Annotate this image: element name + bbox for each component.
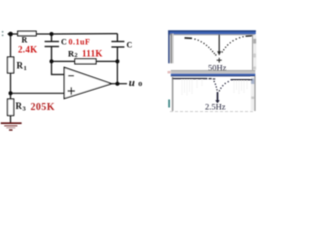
wire R2 row right	[96, 60, 117, 62]
svg-text:R: R	[22, 36, 28, 45]
panel 2 striations left	[182, 80, 202, 96]
capacitor C2	[111, 34, 124, 62]
resistor R2	[75, 59, 96, 64]
op-amp minus sign	[68, 75, 74, 77]
svg-text:u: u	[129, 77, 135, 89]
node C1 top	[50, 32, 54, 36]
wire R3 to ground	[10, 116, 12, 124]
panel 1 waveform right slope (dotted)	[222, 36, 244, 53]
input terminal	[2, 31, 4, 36]
panel 1 plus marker	[217, 58, 222, 63]
output node	[115, 82, 119, 86]
wire node A to resistor R	[11, 33, 18, 35]
panel 2 notch arrow	[215, 92, 219, 103]
svg-text:2.4K: 2.4K	[18, 45, 37, 55]
svg-text:1: 1	[24, 65, 27, 72]
panel 1 notch arrow	[217, 35, 221, 56]
svg-text:o: o	[138, 79, 142, 88]
wire node B to R3	[10, 93, 12, 99]
wire node A down to R1	[10, 34, 12, 57]
svg-text:C: C	[61, 38, 67, 47]
wire C1 node down to minus input	[52, 61, 65, 74]
svg-text:C: C	[127, 41, 133, 50]
scope panel 2 frame	[168, 74, 255, 112]
svg-text:2: 2	[75, 53, 78, 59]
wire R1 to node B	[10, 73, 12, 93]
wire top node C1 to C2	[52, 33, 118, 35]
svg-text:R: R	[17, 61, 24, 71]
svg-text:50Hz: 50Hz	[208, 63, 227, 73]
svg-text:2.5Hz: 2.5Hz	[205, 102, 226, 112]
ground	[1, 123, 22, 130]
panel 1 waveform left flat	[185, 37, 193, 39]
svg-text:0.1uF: 0.1uF	[69, 38, 91, 47]
svg-text:3: 3	[23, 106, 27, 113]
panel 2 waveform right slope (dotted)	[219, 81, 229, 92]
resistor R1	[8, 57, 14, 73]
op-amp plus sign	[68, 87, 76, 94]
wire R to node C1	[36, 33, 51, 35]
panel 2 waveform left flat	[172, 78, 207, 79]
svg-text:205K: 205K	[31, 102, 55, 113]
wire feedback down to output node	[116, 61, 118, 83]
panel 2 striations right	[234, 81, 247, 95]
scope panel 1 frame	[168, 30, 257, 73]
node B	[9, 91, 13, 95]
node R2 left	[50, 59, 54, 63]
wire node B to plus input	[11, 92, 65, 94]
panel 1 waveform right flat	[246, 35, 253, 37]
panel 1 waveform left slope (dotted)	[194, 39, 216, 56]
node R2 right	[115, 59, 119, 63]
panel 2 waveform left slope (dotted)	[214, 81, 218, 91]
resistor R	[18, 31, 36, 36]
capacitor C1	[45, 34, 59, 61]
node A	[8, 33, 11, 35]
wire R2 row left	[52, 60, 75, 62]
svg-text:111K: 111K	[82, 49, 103, 59]
panel 2 waveform right flat	[231, 79, 253, 80]
wire output	[112, 83, 127, 85]
resistor R3	[8, 99, 14, 116]
svg-text:R: R	[16, 101, 23, 111]
op-amp U1	[64, 67, 111, 98]
